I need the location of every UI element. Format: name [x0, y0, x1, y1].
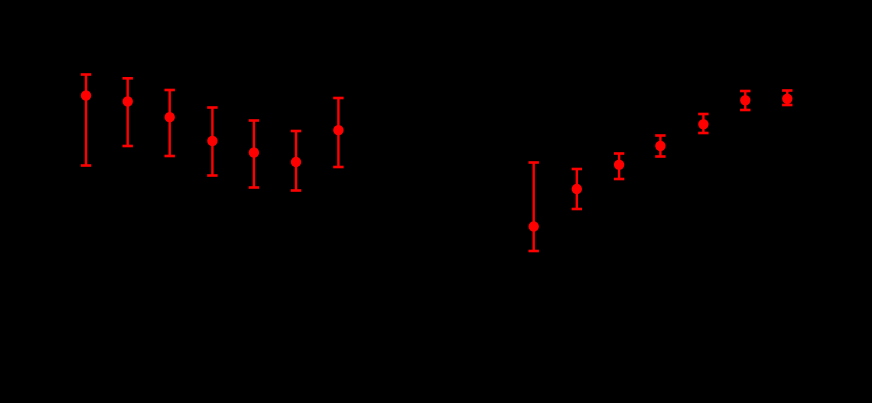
left panel data point 3 marker [165, 112, 175, 122]
right panel data point 5 marker [698, 119, 708, 129]
left panel data point 7 error bar [333, 98, 343, 167]
right panel data point 6 error bar [740, 91, 750, 110]
right panel data point 2 marker [572, 184, 582, 194]
right panel data point 1 marker [529, 221, 539, 231]
left panel data point 1 error bar [81, 75, 91, 166]
right panel data point 2 error bar [572, 169, 582, 209]
right panel data point 1 error bar [529, 163, 539, 252]
left panel data point 6 marker [291, 157, 301, 167]
left panel data point 4 marker [207, 136, 217, 146]
right panel data point 6 marker [740, 95, 750, 105]
left panel data point 1 marker [81, 90, 91, 100]
left panel data point 7 marker [333, 125, 343, 135]
left panel data point 6 error bar [291, 131, 301, 191]
right panel data point 4 marker [655, 141, 665, 151]
right panel data point 7 error bar [782, 91, 792, 106]
left panel data point 5 error bar [249, 121, 259, 188]
left panel data point 2 marker [123, 96, 133, 106]
right panel data point 4 error bar [655, 136, 665, 157]
left panel data point 2 error bar [123, 78, 133, 146]
right panel data point 7 marker [782, 94, 792, 104]
left panel data point 3 error bar [165, 90, 175, 156]
right panel data point 5 error bar [698, 114, 708, 133]
right panel data point 3 error bar [614, 154, 624, 180]
left panel data point 4 error bar [207, 108, 217, 176]
right panel data point 3 marker [614, 160, 624, 170]
left panel data point 5 marker [249, 147, 259, 157]
